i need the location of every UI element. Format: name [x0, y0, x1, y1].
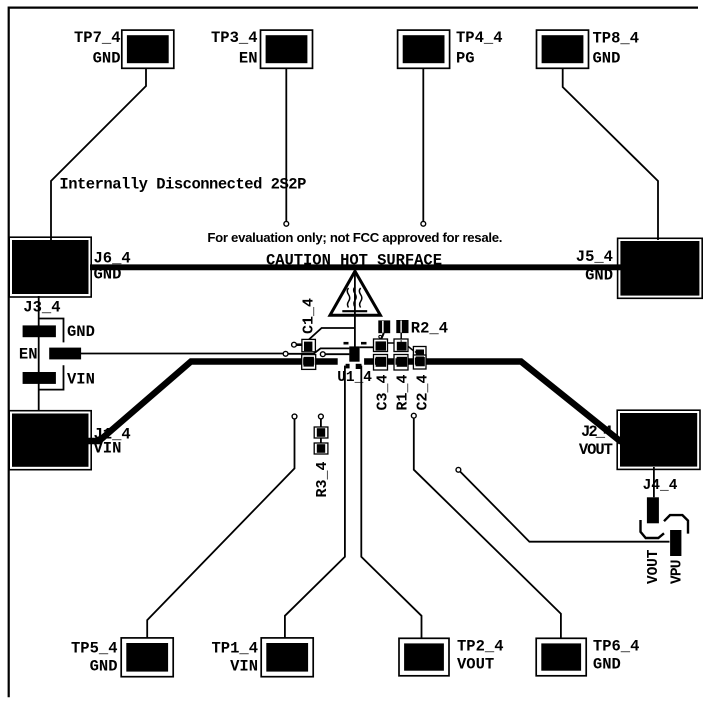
svg-text:GND: GND [93, 49, 121, 67]
svg-text:VOUT: VOUT [457, 656, 494, 674]
svg-text:R3_4: R3_4 [314, 461, 331, 497]
svg-text:TP4_4: TP4_4 [456, 29, 503, 47]
svg-text:EN: EN [239, 49, 258, 67]
svg-text:VOUT: VOUT [579, 441, 613, 459]
svg-text:R2_4: R2_4 [411, 320, 448, 338]
svg-text:J5_4: J5_4 [576, 248, 613, 266]
svg-text:EN: EN [19, 346, 38, 364]
svg-text:GND: GND [90, 658, 118, 676]
svg-text:CAUTION HOT SURFACE: CAUTION HOT SURFACE [266, 252, 442, 270]
svg-text:GND: GND [585, 267, 613, 285]
svg-text:TP5_4: TP5_4 [71, 640, 118, 658]
svg-text:VIN: VIN [94, 440, 122, 458]
svg-text:R1_4: R1_4 [395, 374, 412, 410]
svg-text:J2_4: J2_4 [581, 423, 613, 441]
svg-text:For evaluation only; not FCC a: For evaluation only; not FCC approved fo… [207, 230, 502, 245]
svg-text:GND: GND [593, 50, 621, 68]
svg-text:GND: GND [593, 656, 621, 674]
svg-text:VOUT: VOUT [646, 549, 662, 584]
svg-text:TP7_4: TP7_4 [74, 29, 121, 47]
svg-text:TP3_4: TP3_4 [211, 29, 258, 47]
svg-text:C3_4: C3_4 [375, 374, 392, 410]
svg-text:TP6_4: TP6_4 [593, 638, 640, 656]
svg-text:GND: GND [94, 266, 122, 284]
svg-text:GND: GND [67, 323, 95, 341]
svg-text:J4_4: J4_4 [643, 478, 678, 494]
svg-text:Internally Disconnected 2S2P: Internally Disconnected 2S2P [59, 176, 306, 194]
svg-text:TP8_4: TP8_4 [593, 30, 640, 48]
svg-text:TP2_4: TP2_4 [457, 638, 504, 656]
svg-text:TP1_4: TP1_4 [211, 640, 258, 658]
svg-text:U1_4: U1_4 [337, 370, 372, 386]
svg-text:J3_4: J3_4 [23, 299, 60, 317]
svg-text:VIN: VIN [230, 658, 258, 676]
svg-text:VIN: VIN [67, 371, 95, 389]
svg-text:VPU: VPU [670, 560, 686, 585]
svg-text:PG: PG [456, 49, 475, 67]
svg-text:C2_4: C2_4 [415, 374, 432, 410]
svg-text:C1_4: C1_4 [301, 298, 318, 334]
